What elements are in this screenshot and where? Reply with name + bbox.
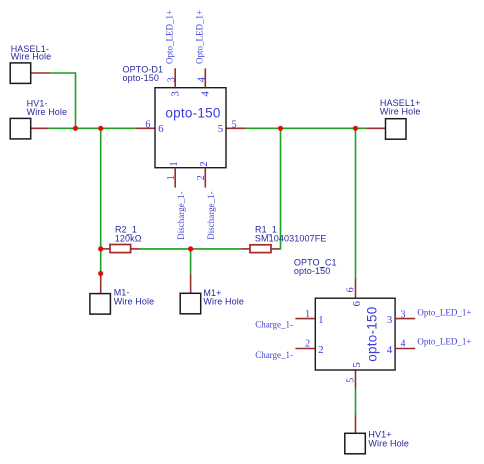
pin number 1 OPTO_C1 <box>305 309 310 320</box>
pin name 3 inside OPTO-D1 <box>169 91 181 97</box>
svg-text:3: 3 <box>401 310 406 321</box>
junction dot middle row M1+ tap <box>188 246 193 251</box>
pin name 3 inside OPTO_C1 <box>387 314 393 326</box>
resistor R2 body <box>110 245 131 253</box>
svg-text:SM104031007FE: SM104031007FE <box>255 234 327 244</box>
svg-text:4: 4 <box>387 344 393 356</box>
svg-text:Charge_1-: Charge_1- <box>255 350 293 360</box>
pin name 2 inside OPTO-D1 <box>198 161 210 167</box>
label HV1- Wire Hole <box>27 99 68 117</box>
svg-text:Charge_1-: Charge_1- <box>255 319 293 329</box>
svg-text:6: 6 <box>351 301 363 307</box>
wire red stub R1 left <box>241 248 250 250</box>
wire pin5 red stub OPTO_C1 bottom <box>355 370 357 389</box>
wire hole M1+ <box>180 293 201 314</box>
pin number 2 OPTO_C1 <box>305 339 310 350</box>
resistor R1 body <box>250 245 271 253</box>
junction dot at x=100.7 main <box>98 126 103 131</box>
label R2_1 value 120kOhm <box>115 225 142 244</box>
junction dot at x=280.5 main <box>278 126 283 131</box>
pin number 2 OPTO-D1 <box>196 175 207 180</box>
wire HASEL1- net green vertical drop <box>75 72 77 128</box>
pin 3 stub OPTO-D1 <box>174 68 176 87</box>
pin number 5 OPTO_C1 <box>346 378 357 383</box>
wire vertical green x=100.7 from main to R2 row <box>100 128 102 249</box>
svg-text:4: 4 <box>196 77 207 82</box>
label opto-150 inside C1 rotated <box>364 307 379 362</box>
svg-text:6: 6 <box>158 123 164 135</box>
wire hole M1- <box>90 294 111 315</box>
op-amp U1 body: optocoupler OPTO-D1 box <box>155 88 226 168</box>
label M1+ Wire Hole <box>203 288 244 307</box>
wire red stub R2 right <box>131 248 141 250</box>
wire hole HASEL1- <box>10 63 31 84</box>
svg-text:1: 1 <box>305 309 310 320</box>
svg-text:Opto_LED_1+: Opto_LED_1+ <box>417 337 471 347</box>
svg-text:opto-150: opto-150 <box>123 73 160 83</box>
svg-text:Opto_LED_1+: Opto_LED_1+ <box>417 308 471 318</box>
label M1- Wire Hole <box>114 288 155 307</box>
pin 2 stub OPTO_C1 <box>295 348 315 350</box>
wire pin5 red segment from OPTO-D1 <box>226 127 246 129</box>
svg-text:Wire Hole: Wire Hole <box>11 51 52 61</box>
wire red stub junction to R2 left <box>101 248 110 250</box>
wire red vertical into HV1+ hole <box>355 415 357 434</box>
junction dot at x=355.5 main <box>353 126 358 131</box>
svg-text:3: 3 <box>169 91 181 97</box>
svg-text:3: 3 <box>387 314 393 326</box>
svg-text:Opto_LED_1+: Opto_LED_1+ <box>165 10 175 64</box>
svg-text:2: 2 <box>198 161 210 167</box>
wire red vertical to M1+ hole <box>190 274 192 293</box>
pin name 4 inside OPTO-D1 <box>200 91 212 97</box>
label HV1+ Wire Hole <box>368 430 409 449</box>
net label Opto_LED_1+ at C1 pin3 <box>417 308 471 318</box>
pin number 4 OPTO-D1 <box>196 77 207 82</box>
pin 3 stub OPTO_C1 <box>395 318 415 320</box>
wire hole HASEL1+ <box>386 119 407 140</box>
svg-text:1: 1 <box>168 161 180 167</box>
svg-text:Discharge_1-: Discharge_1- <box>176 191 186 239</box>
pin number 6 OPTO-D1 <box>145 119 150 130</box>
net label Discharge_1- rotated at D1 pin2 <box>206 191 216 239</box>
label HASEL1+ Wire Hole <box>380 98 421 117</box>
wire HASEL1- net horizontal red segment from hole <box>31 72 50 74</box>
pin number 4 OPTO_C1 <box>401 339 406 350</box>
svg-text:1: 1 <box>166 175 177 180</box>
label OPTO-D1 opto-150 <box>123 65 164 83</box>
svg-text:5: 5 <box>346 378 357 383</box>
pin name 6 inside OPTO-D1 <box>158 123 164 135</box>
net label Discharge_1- rotated at D1 pin1 <box>176 191 186 239</box>
pin name 1 inside OPTO_C1 <box>318 314 324 326</box>
svg-text:2: 2 <box>305 339 310 350</box>
svg-text:opto-150: opto-150 <box>165 106 220 121</box>
svg-text:2: 2 <box>196 175 207 180</box>
wire pin6 red segment into OPTO-D1 <box>136 127 155 129</box>
wire red vertical dot to M1- hole <box>100 274 102 294</box>
wire red segment into HASEL1+ hole <box>366 127 385 129</box>
svg-text:Wire Hole: Wire Hole <box>203 297 244 307</box>
svg-text:opto-150: opto-150 <box>294 266 331 276</box>
pin 1 stub OPTO-D1 <box>174 168 176 188</box>
pin name 4 inside OPTO_C1 <box>387 344 393 356</box>
pin number 3 OPTO-D1 <box>166 77 177 82</box>
pin 4 stub OPTO_C1 <box>395 348 415 350</box>
pin name 5 inside OPTO-D1 <box>218 123 224 135</box>
wire hole HV1+ <box>345 433 366 454</box>
pin name 1 inside OPTO-D1 <box>168 161 180 167</box>
wire green vertical x=355.5 down to OPTO_C1 pin6 <box>355 128 357 278</box>
net label Charge_1- at C1 pin2 <box>255 350 293 360</box>
pin number 6 OPTO_C1 <box>346 287 357 292</box>
junction dot at HASEL1- tap <box>73 126 78 131</box>
net label Opto_LED_1+ at C1 pin4 <box>417 337 471 347</box>
svg-text:Wire Hole: Wire Hole <box>368 438 409 448</box>
wire green vertical x=280.5 down to R1 right <box>280 128 282 249</box>
wire green vertical junction to M1+ <box>190 249 192 274</box>
wire green vertical to M1- dot <box>100 249 102 274</box>
svg-text:5: 5 <box>218 123 224 135</box>
pin number 3 OPTO_C1 <box>401 310 406 321</box>
svg-text:4: 4 <box>401 339 406 350</box>
svg-text:5: 5 <box>351 362 363 368</box>
wire main horizontal red segment at HV1- hole <box>31 127 49 129</box>
wire pin6 red stub OPTO_C1 <box>355 278 357 298</box>
pin number 1 OPTO-D1 <box>166 175 177 180</box>
pin number 5 OPTO-D1 <box>232 119 237 130</box>
svg-text:6: 6 <box>145 119 150 130</box>
wire green middle horizontal <box>140 248 241 250</box>
svg-text:120kΩ: 120kΩ <box>115 233 142 243</box>
svg-text:Wire Hole: Wire Hole <box>114 297 155 307</box>
pin name 2 inside OPTO_C1 <box>318 344 324 356</box>
svg-text:2: 2 <box>318 344 324 356</box>
wire hole HV1- <box>10 118 31 138</box>
svg-text:1: 1 <box>318 314 324 326</box>
svg-text:Wire Hole: Wire Hole <box>380 106 421 116</box>
wire main horizontal green segment <box>49 127 136 129</box>
pin 2 stub OPTO-D1 <box>204 168 206 188</box>
svg-text:opto-150: opto-150 <box>364 307 379 362</box>
net label Charge_1- at C1 pin1 <box>255 319 293 329</box>
wire HASEL1- net green horizontal <box>50 72 76 74</box>
pin name 6 inside OPTO_C1 <box>351 301 363 307</box>
svg-text:Opto_LED_1+: Opto_LED_1+ <box>195 10 205 64</box>
op-amp U2 body: optocoupler OPTO_C1 box <box>315 298 395 370</box>
net label Opto_LED_1+ rotated at D1 pin4 <box>195 10 205 64</box>
svg-text:5: 5 <box>232 119 237 130</box>
pin 1 stub OPTO_C1 <box>295 318 315 320</box>
net label Opto_LED_1+ rotated at D1 pin3 <box>165 10 175 64</box>
junction dot on M1- drop <box>98 271 103 276</box>
svg-text:4: 4 <box>200 91 212 97</box>
svg-text:Discharge_1-: Discharge_1- <box>206 191 216 239</box>
label HASEL1- Wire Hole <box>11 44 52 62</box>
pin 4 stub OPTO-D1 <box>204 68 206 87</box>
wire green vertical to HV1+ <box>355 388 357 415</box>
wire red stub R1 right <box>271 248 281 250</box>
junction dot at R2 left <box>98 246 103 251</box>
pin name 5 inside OPTO_C1 <box>351 362 363 368</box>
svg-text:3: 3 <box>166 77 177 82</box>
label opto-150 inside D1 <box>165 106 220 121</box>
wire green horizontal right section <box>245 127 366 129</box>
svg-text:6: 6 <box>346 287 357 292</box>
svg-text:Wire Hole: Wire Hole <box>27 107 68 117</box>
label OPTO_C1 opto-150 <box>294 258 337 276</box>
label R1_1 value SM104031007FE <box>255 225 327 244</box>
